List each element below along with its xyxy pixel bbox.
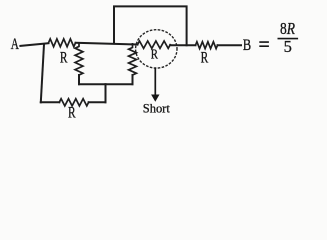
svg-text:A: A bbox=[11, 36, 20, 53]
svg-text:Short: Short bbox=[143, 101, 170, 116]
top loop wire bbox=[114, 6, 187, 45]
svg-text:5: 5 bbox=[284, 37, 292, 56]
fraction bar bbox=[278, 38, 297, 40]
wire R3 bottom lead bbox=[132, 75, 134, 84]
resistor R3 vertical right bbox=[129, 44, 137, 75]
equals sign bbox=[260, 42, 268, 46]
resistor R2 vertical left bbox=[75, 43, 83, 75]
wire R2 bottom lead bbox=[78, 75, 80, 84]
resistor R1 bbox=[49, 39, 76, 47]
wire mid vertical bbox=[105, 84, 107, 102]
svg-text:8R: 8R bbox=[280, 19, 295, 38]
wire R1 to circled resistor bbox=[76, 43, 138, 45]
wire bottom branch right bbox=[89, 101, 106, 103]
dotted circle short indicator bbox=[136, 30, 177, 68]
resistor R4 bbox=[59, 99, 88, 106]
svg-text:B: B bbox=[243, 37, 251, 54]
svg-text:R: R bbox=[201, 50, 209, 67]
wire R6 to node B bbox=[218, 44, 242, 46]
wire circle to R6 bbox=[170, 44, 195, 46]
resistor R5 in dotted circle bbox=[138, 41, 171, 48]
wire A to junction bbox=[20, 43, 48, 46]
resistor R6 bbox=[196, 42, 218, 49]
svg-text:R: R bbox=[60, 50, 68, 67]
wire box bottom bbox=[79, 83, 133, 85]
svg-text:R: R bbox=[151, 47, 158, 62]
svg-text:R: R bbox=[68, 105, 76, 122]
wire bottom branch left bbox=[41, 101, 60, 103]
short arrow bbox=[154, 68, 156, 95]
left branch vertical wire bbox=[41, 44, 44, 102]
